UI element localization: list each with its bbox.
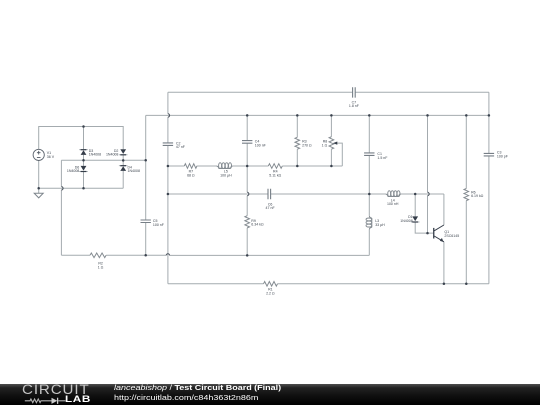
resistor R2 1ohm zigzag	[90, 253, 106, 258]
capacitor C1 1.5nF	[364, 153, 374, 156]
svg-text:1N4008: 1N4008	[400, 219, 412, 223]
svg-text:33 µH: 33 µH	[375, 223, 385, 227]
wire D6 to bridge bottom	[83, 171, 85, 188]
wire C6 L4 row	[168, 193, 444, 195]
svg-text:6.19 kΩ: 6.19 kΩ	[471, 194, 484, 198]
svg-text:47 nF: 47 nF	[266, 206, 276, 210]
wire outer box right	[488, 92, 490, 284]
voltage source V1	[33, 149, 44, 160]
resistor R4 5.11k zigzag	[268, 164, 282, 169]
inductor L5 100uH	[217, 163, 233, 169]
diode D4	[120, 165, 126, 171]
wire top rail	[146, 114, 489, 116]
resistor R8 1ohm zigzag vertical	[329, 137, 334, 149]
wire C5 column	[145, 115, 147, 255]
svg-text:1N4008: 1N4008	[106, 153, 118, 157]
ground	[34, 193, 43, 198]
circuitlab logo	[21, 383, 23, 385]
capacitor C5 100nF	[141, 220, 151, 223]
wire bottom row R1	[168, 283, 489, 285]
wire bridge top rail	[39, 127, 124, 150]
wire outer box top	[168, 91, 489, 93]
wire hops	[61, 114, 429, 256]
resistor R6 6.19k zigzag vertical	[464, 189, 469, 201]
svg-text:1N4008: 1N4008	[128, 169, 140, 173]
resistor R1 2.2ohm zigzag	[264, 282, 278, 287]
capacitor plates	[141, 87, 495, 222]
resistor R3 270ohm zigzag vertical	[295, 137, 300, 149]
wire left drop with hop over bridge bottom	[60, 160, 62, 255]
svg-text:36 V: 36 V	[47, 155, 55, 159]
wire R7 row	[168, 165, 342, 167]
diode D3	[81, 149, 87, 155]
wire D4 to bridge bottom	[122, 171, 124, 188]
wire R8 wiper loop	[336, 143, 342, 166]
transistor Q1 2SC6145	[433, 225, 444, 242]
wire bridge bottom	[39, 187, 124, 189]
potentiometer R8 wiper arrow	[333, 142, 337, 145]
capacitor C3 100pF	[484, 153, 494, 156]
diode D1	[412, 216, 418, 222]
inductor L3 33uH vertical	[366, 216, 372, 230]
component strokes	[90, 137, 469, 286]
wire R3 column	[296, 115, 298, 166]
svg-text:100 µH: 100 µH	[220, 173, 232, 177]
capacitor C6 47nF	[268, 189, 271, 199]
capacitor C4 100nF	[242, 141, 252, 144]
wire Q1 emitter column	[443, 242, 445, 284]
wire C4 R9 column	[246, 115, 248, 255]
svg-text:2SC6145: 2SC6145	[444, 234, 459, 238]
svg-text:100 nF: 100 nF	[153, 223, 165, 227]
wire V1 bottom lead	[38, 161, 40, 194]
wire node mid horizontal	[61, 159, 145, 161]
svg-text:100 nH: 100 nH	[387, 202, 399, 206]
wire base column with hop	[427, 115, 429, 233]
svg-text:100 nF: 100 nF	[255, 144, 267, 148]
diode terminal ticks	[79, 150, 419, 222]
resistor R9 6.34k zigzag vertical	[245, 216, 250, 228]
wire D3 to D6	[83, 155, 85, 166]
footer bar	[0, 384, 540, 405]
svg-text:6.34 kΩ: 6.34 kΩ	[251, 223, 264, 227]
resistor R7 68ohm zigzag	[184, 164, 197, 169]
svg-text:100 pF: 100 pF	[497, 155, 509, 159]
wire Q1 collector column	[443, 194, 445, 225]
svg-text:1N4008: 1N4008	[67, 169, 79, 173]
svg-text:1N4008: 1N4008	[89, 153, 101, 157]
schematic wires	[39, 92, 489, 284]
diode D2	[120, 149, 126, 155]
wire R6 column	[465, 115, 467, 283]
wire D1 column	[415, 194, 433, 233]
svg-text:2.2 Ω: 2.2 Ω	[266, 292, 275, 296]
wire R2 row	[61, 254, 369, 256]
svg-text:1.8 nF: 1.8 nF	[349, 104, 360, 108]
wire C1 L3 column	[368, 115, 370, 255]
inductor L4 100nH	[386, 191, 401, 197]
svg-text:68 Ω: 68 Ω	[187, 173, 195, 177]
svg-text:270 Ω: 270 Ω	[302, 144, 312, 148]
wire R8 column	[330, 115, 332, 166]
wire D2 segments	[122, 155, 124, 166]
svg-text:5.11 kΩ: 5.11 kΩ	[269, 173, 281, 177]
wire main left column	[167, 92, 169, 284]
footer text	[114, 383, 281, 403]
svg-text:1.5 nF: 1.5 nF	[377, 156, 388, 160]
svg-text:1 Ω: 1 Ω	[322, 144, 328, 148]
capacitor C7 1.8nF	[353, 87, 356, 97]
diode D6	[81, 166, 87, 172]
capacitor C2 47nF	[163, 143, 173, 146]
logo wire glyph	[22, 396, 88, 405]
svg-text:1 Ω: 1 Ω	[98, 265, 104, 269]
svg-text:47 nF: 47 nF	[176, 145, 186, 149]
wire D3 anode to mid node	[83, 127, 85, 151]
